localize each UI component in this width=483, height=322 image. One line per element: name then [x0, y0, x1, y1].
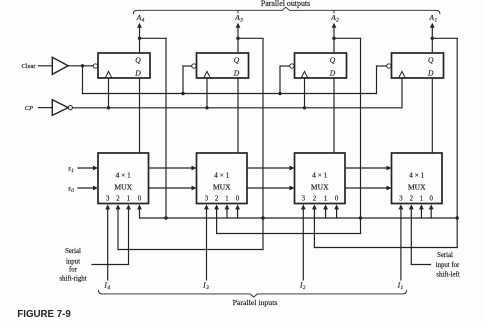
wire s1 from MUX M2 to MUX M1	[345, 166, 392, 171]
clear bubble on FF2	[290, 64, 294, 68]
clear bubble on FF1	[387, 64, 391, 68]
pin 0 arrow of MUX M4 (hold from A4)	[137, 204, 142, 218]
label: FIGURE 7-9	[17, 309, 71, 320]
junction dot feedback A4 on bus	[164, 216, 167, 219]
label: CP	[25, 105, 33, 112]
junction dot feedback A1 on bus	[456, 216, 459, 219]
wire Q3 up to output A3 (arrow)	[236, 23, 241, 53]
pin 3 arrow of MUX M2 (input I2)	[301, 204, 306, 280]
wire clear riser to FF2 bubble	[280, 66, 290, 94]
node I1 (parallel input)	[397, 280, 404, 291]
junction dot clear bus at FF2	[278, 92, 281, 95]
flip-flop FF4 (D flip-flop, stage A4)	[98, 53, 150, 78]
wire clear riser to FF1 bubble	[377, 66, 387, 94]
label: Serial input for shift-left	[436, 252, 460, 278]
node I2 (parallel input)	[299, 280, 306, 291]
label: select s1	[68, 164, 74, 174]
junction dot CP bus at FF4	[107, 106, 110, 109]
svg-text:D: D	[329, 68, 336, 77]
svg-text:D: D	[134, 68, 141, 77]
svg-text:1: 1	[324, 196, 327, 203]
svg-text:CP: CP	[25, 105, 33, 112]
node A3 (parallel output)	[234, 13, 243, 24]
brace: Parallel outputs	[133, 7, 440, 14]
label: select s0	[68, 184, 74, 194]
pin 1 arrow of MUX M1 (shift-right source)	[419, 204, 424, 218]
node A4 (parallel output)	[136, 13, 145, 24]
wire s0 from MUX M3 to MUX M2	[247, 186, 295, 191]
junction dot clear bus at FF3	[181, 92, 184, 95]
svg-text:Q: Q	[428, 55, 434, 64]
wire A4 branch to feedback riser	[140, 37, 167, 39]
junction dot on A1 line	[431, 37, 434, 40]
label: Clear	[21, 63, 36, 70]
svg-text:1: 1	[225, 196, 228, 203]
svg-text:Clear: Clear	[21, 63, 36, 70]
pin 2 arrow of MUX M2 (shift-left source)	[312, 204, 317, 247]
svg-text:FIGURE 7-9: FIGURE 7-9	[17, 309, 71, 320]
wire clock riser to FF4	[108, 78, 110, 108]
svg-text:4 × 1: 4 × 1	[116, 171, 132, 180]
wire s1 into MUX4	[78, 166, 98, 171]
4x1 MUX M2 (stage A2)	[295, 153, 346, 204]
wire A2 to MUX M3 pin 2 (shift-left path)	[217, 218, 361, 234]
label: Serial input for shift-right	[59, 248, 86, 282]
svg-text:A2: A2	[330, 13, 339, 24]
wire s0 from MUX M4 to MUX M3	[149, 186, 197, 191]
junction dot on A2 line	[332, 37, 335, 40]
flip-flop FF3 (D flip-flop, stage A3)	[197, 53, 249, 78]
svg-text:Parallel outputs: Parallel outputs	[261, 0, 310, 8]
svg-text:input: input	[66, 258, 80, 265]
wire CP bus	[72, 107, 402, 109]
wire A2 branch to feedback riser	[334, 37, 361, 39]
pin labels 3 2 1 0 of MUX M2	[302, 196, 339, 203]
svg-text:3: 3	[106, 196, 110, 203]
svg-text:MUX: MUX	[408, 182, 426, 191]
svg-text:shift-right: shift-right	[59, 275, 86, 282]
svg-text:MUX: MUX	[213, 182, 231, 191]
svg-text:A1: A1	[428, 13, 437, 24]
svg-text:I4: I4	[103, 280, 110, 291]
flip-flop FF2 (D flip-flop, stage A2)	[295, 53, 347, 78]
svg-text:0: 0	[429, 196, 433, 203]
pin 3 arrow of MUX M4 (input I4)	[105, 204, 110, 280]
wire clear buffer output to FF4 bubble	[68, 65, 93, 67]
junction dot feedback A3 on bus	[261, 216, 264, 219]
wire clock riser to FF3	[206, 78, 208, 108]
pin 3 arrow of MUX M3 (input I3)	[204, 204, 209, 280]
wire MUX4 output to D of FF4	[139, 78, 141, 153]
pin 1 arrow of MUX M3 (shift-right source)	[225, 204, 230, 218]
clear bubble on FF3	[192, 64, 196, 68]
svg-text:2: 2	[116, 196, 120, 203]
wire Q4 up to output A4 (arrow)	[137, 23, 142, 53]
wire MUX1 output to D of FF1	[431, 78, 433, 153]
pin labels 3 2 1 0 of MUX M1	[399, 196, 433, 203]
svg-text:1: 1	[420, 196, 423, 203]
wire A1 branch to feedback riser	[432, 37, 457, 39]
svg-text:0: 0	[236, 196, 240, 203]
wire A3 to MUX M4 pin 2 (shift-left path)	[118, 218, 263, 250]
pin 1 arrow of MUX M4 (shift-right source)	[126, 204, 131, 264]
svg-text:Q: Q	[135, 55, 141, 64]
svg-text:A3: A3	[234, 13, 243, 24]
pin 3 arrow of MUX M1 (input I1)	[399, 204, 404, 280]
wire serial input for shift-left to MUX1 pin 2	[411, 264, 430, 266]
pin 0 arrow of MUX M3 (hold from A3)	[235, 204, 240, 218]
pin 2 arrow of MUX M4 (shift-left source)	[116, 204, 121, 249]
pin 0 arrow of MUX M2 (hold from A2)	[334, 204, 339, 218]
wire feedback riser A2 down to mux bus	[360, 38, 362, 218]
svg-text:D: D	[427, 68, 434, 77]
svg-text:Serial: Serial	[65, 248, 81, 255]
wire Q2 up to output A2 (arrow)	[332, 23, 337, 53]
wire feedback riser A3 down to mux bus	[262, 38, 264, 218]
clock triangle on FF1	[399, 71, 406, 78]
svg-text:3: 3	[302, 196, 306, 203]
inverter U-CP (clock driver with bubble)	[39, 100, 73, 116]
svg-text:I1: I1	[397, 280, 404, 291]
svg-text:3: 3	[399, 196, 403, 203]
node I4 (parallel input)	[103, 280, 110, 291]
label: Parallel outputs	[261, 0, 310, 8]
wire feedback bus (A outputs to mux inputs)	[140, 217, 458, 219]
wire clock riser to FF2	[304, 78, 306, 108]
wire A1 to MUX M2 pin 2 (shift-left path)	[314, 218, 457, 248]
pin 1 arrow of MUX M2 (shift-right source)	[323, 204, 328, 218]
svg-text:Q: Q	[330, 55, 336, 64]
svg-text:MUX: MUX	[114, 182, 132, 191]
wire feedback riser A4 down to mux bus	[165, 38, 167, 218]
svg-text:I2: I2	[299, 280, 306, 291]
wire clear riser down to clear bus	[82, 66, 84, 94]
junction dot on A4 line	[138, 37, 141, 40]
svg-text:4 × 1: 4 × 1	[214, 171, 230, 180]
svg-text:MUX: MUX	[311, 182, 329, 191]
svg-text:0: 0	[335, 196, 339, 203]
flip-flop FF1 (D flip-flop, stage A1)	[392, 53, 444, 78]
svg-text:2: 2	[215, 196, 219, 203]
svg-text:1: 1	[127, 196, 130, 203]
svg-text:4 × 1: 4 × 1	[312, 171, 328, 180]
svg-text:2: 2	[313, 196, 317, 203]
junction dot CP bus at FF2	[303, 106, 306, 109]
wire s0 from MUX M2 to MUX M1	[345, 186, 392, 191]
node A2 (parallel output)	[330, 13, 339, 24]
brace: Parallel inputs	[98, 290, 406, 297]
wire serial input for shift-right to MUX4 pin 1	[92, 264, 129, 266]
4x1 MUX M4 (stage A4)	[98, 153, 149, 204]
4x1 MUX M3 (stage A3)	[197, 153, 248, 204]
pin 2 arrow of MUX M3 (shift-left source)	[214, 204, 219, 233]
junction dot CP bus at FF3	[205, 106, 208, 109]
svg-text:shift-left: shift-left	[436, 271, 460, 278]
label: Parallel inputs	[233, 298, 278, 307]
wire MUX2 output to D of FF2	[333, 78, 335, 153]
tick marks on brace	[238, 10, 334, 13]
svg-text:0: 0	[138, 196, 142, 203]
pin labels 3 2 1 0 of MUX M3	[205, 196, 240, 203]
junction dot feedback A2 on bus	[359, 216, 362, 219]
svg-text:Parallel inputs: Parallel inputs	[233, 298, 278, 307]
pin 0 arrow of MUX M1 (hold from A1)	[429, 204, 434, 218]
node I3 (parallel input)	[202, 280, 209, 291]
wire MUX3 output to D of FF3	[237, 78, 239, 153]
wire clear bus	[83, 93, 377, 95]
node A1 (parallel output)	[428, 13, 437, 24]
svg-text:4 × 1: 4 × 1	[409, 171, 425, 180]
svg-text:Q: Q	[234, 55, 240, 64]
wire s1 from MUX M3 to MUX M2	[247, 166, 295, 171]
svg-text:Serial: Serial	[437, 252, 453, 259]
svg-text:input for: input for	[436, 262, 460, 269]
clear bubble on FF4	[93, 64, 97, 68]
junction dot clear branch	[81, 64, 84, 67]
clock triangle on FF2	[301, 71, 308, 78]
wire Q1 up to output A1 (arrow)	[430, 23, 435, 53]
svg-text:I3: I3	[202, 280, 209, 291]
wire clock riser to FF1	[401, 78, 403, 108]
wire s1 from MUX M4 to MUX M3	[149, 166, 197, 171]
wire A3 branch to feedback riser	[238, 37, 263, 39]
svg-text:A4: A4	[136, 13, 145, 24]
svg-text:2: 2	[410, 196, 414, 203]
wire clear riser to FF3 bubble	[183, 66, 192, 94]
4x1 MUX M1 (stage A1)	[392, 153, 443, 204]
wire s0 into MUX4	[78, 186, 98, 191]
pin 2 arrow of MUX M1 (shift-left source)	[409, 204, 414, 264]
clock triangle on FF4	[105, 71, 112, 78]
junction dot on A3 line	[236, 37, 239, 40]
svg-text:s1: s1	[68, 164, 74, 174]
svg-text:s0: s0	[68, 184, 74, 194]
buffer U-CLR (Clear driver)	[39, 57, 69, 74]
clock triangle on FF3	[204, 71, 211, 78]
svg-text:D: D	[233, 68, 240, 77]
wire feedback riser A1 down to mux bus	[456, 38, 458, 218]
svg-text:3: 3	[205, 196, 209, 203]
svg-text:for: for	[69, 267, 78, 274]
pin labels 3 2 1 0 of MUX M4	[106, 196, 142, 203]
